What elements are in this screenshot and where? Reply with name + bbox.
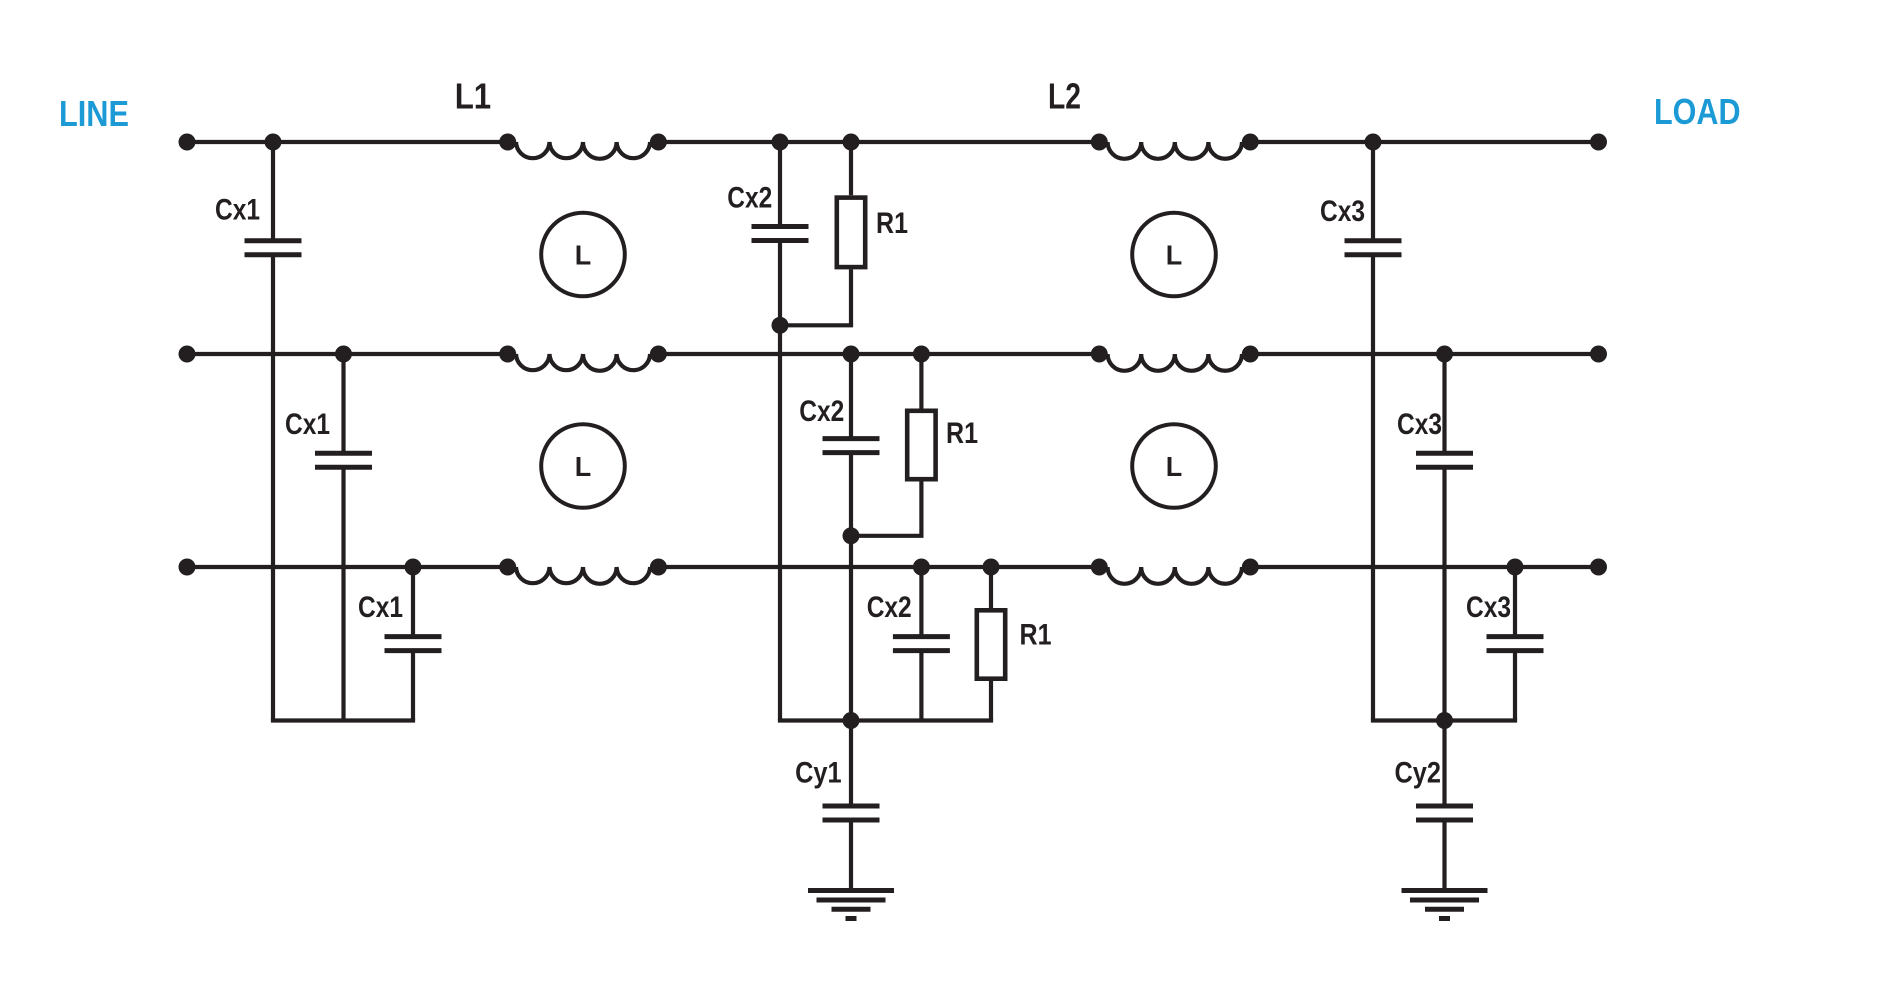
node top rail terminal xyxy=(179,134,196,151)
capacitor Cx1 (middle) wire upper xyxy=(341,354,345,453)
node bottom rail L2 end xyxy=(1242,559,1259,576)
capacitor Cx2 (top) wire lower xyxy=(778,241,782,721)
svg-text:Cy2: Cy2 xyxy=(1395,757,1442,790)
svg-text:Cx2: Cx2 xyxy=(867,591,912,624)
resistor R1 (top) lead upper xyxy=(849,142,853,195)
svg-text:L: L xyxy=(575,240,592,271)
inductor winding L1 (bottom rail) xyxy=(516,567,650,584)
inductor L2 winding (top rail) xyxy=(1108,142,1242,159)
node middle rail L2 end xyxy=(1242,346,1259,363)
svg-text:Cx3: Cx3 xyxy=(1466,591,1511,624)
capacitor Cx3 (middle) wire lower xyxy=(1442,467,1446,720)
capacitor Cy2 wire upper xyxy=(1442,721,1446,807)
resistor R1 (top) lead lower xyxy=(849,269,853,325)
common-mode choke core L (top left) xyxy=(541,213,625,297)
resistor R1 (bottom) body xyxy=(977,610,1005,678)
capacitor Cx2 (bottom) plates xyxy=(893,634,950,639)
capacitor Cx2 (middle) plates xyxy=(823,436,880,441)
wire R1 (top) jog to Cx2 xyxy=(778,323,853,327)
svg-text:Cx3: Cx3 xyxy=(1397,408,1442,441)
node bottom rail R1 tap xyxy=(983,559,1000,576)
capacitor Cx3 (middle) plates xyxy=(1416,451,1473,456)
node Cy1 junction on bus xyxy=(843,712,860,729)
capacitor Cx1 (middle) plates xyxy=(315,451,372,456)
node bottom rail Cx2 tap xyxy=(913,559,930,576)
wire bottom rail segment (center) xyxy=(658,565,1099,569)
node middle rail R1 tap xyxy=(913,346,930,363)
capacitor Cx3 (middle) wire upper xyxy=(1442,354,1446,453)
inductor winding L2 (middle rail) xyxy=(1108,354,1242,371)
svg-text:Cx1: Cx1 xyxy=(215,194,260,227)
node top rail L2 end xyxy=(1242,134,1259,151)
capacitor Cx2 (middle) wire upper xyxy=(849,354,853,439)
capacitor Cx1 (middle) wire lower xyxy=(341,467,345,720)
wire top rail segment (L2 to LOAD) xyxy=(1250,140,1598,144)
resistor R1 (bottom) lead upper xyxy=(989,567,993,608)
node top rail L1 start xyxy=(499,134,516,151)
capacitor Cx3 (top) wire upper xyxy=(1371,142,1375,241)
capacitor Cx1 (bottom) wire lower xyxy=(411,651,415,721)
node middle rail terminal xyxy=(179,346,196,363)
node top rail L2 start xyxy=(1091,134,1108,151)
wire middle rail segment (right) xyxy=(1250,352,1598,356)
capacitor Cx2 (bottom) wire lower xyxy=(919,651,923,721)
common-mode choke core L (top right) xyxy=(1132,213,1216,297)
wire Cx3 star bus xyxy=(1371,718,1517,722)
capacitor Cx2 (top) wire upper xyxy=(778,142,782,227)
common-mode choke core L (bottom left) xyxy=(541,424,625,508)
node bottom rail terminal xyxy=(179,559,196,576)
capacitor Cx3 (top) wire lower xyxy=(1371,255,1375,721)
capacitor Cy2 plates xyxy=(1416,804,1473,809)
wire bottom rail segment (right) xyxy=(1250,565,1598,569)
svg-text:R1: R1 xyxy=(876,207,908,240)
capacitor Cx2 (top) plates xyxy=(752,224,809,229)
node bottom rail L1 end xyxy=(650,559,667,576)
node R1/Cx2 (top) junction xyxy=(772,317,789,334)
wire Cx2/R1 star bus xyxy=(778,718,993,722)
svg-text:L1: L1 xyxy=(455,76,492,117)
ground symbol (Cy2) xyxy=(1402,888,1488,893)
inductor winding L2 (bottom rail) xyxy=(1108,567,1242,584)
node bottom rail L1 start xyxy=(499,559,516,576)
resistor R1 (middle) lead lower xyxy=(919,482,923,536)
node top rail Cx2 tap xyxy=(772,134,789,151)
node top rail R1 tap xyxy=(843,134,860,151)
node Cy2 junction on bus xyxy=(1436,712,1453,729)
capacitor Cy1 wire upper xyxy=(849,721,853,807)
node middle rail L1 end xyxy=(650,346,667,363)
svg-text:R1: R1 xyxy=(1020,619,1052,652)
node bottom rail terminal xyxy=(1590,559,1607,576)
svg-text:Cx2: Cx2 xyxy=(799,395,844,428)
wire R1 (middle) jog to Cx2 xyxy=(849,534,924,538)
svg-text:Cx1: Cx1 xyxy=(358,591,403,624)
capacitor Cy1 plates xyxy=(823,804,880,809)
capacitor Cx3 (top) plates xyxy=(1345,238,1402,243)
node top rail terminal xyxy=(1590,134,1607,151)
node R1/Cx2 (middle) junction xyxy=(843,527,860,544)
node middle rail terminal xyxy=(1590,346,1607,363)
svg-text:Cy1: Cy1 xyxy=(795,757,842,790)
node top rail Cx1 tap xyxy=(265,134,282,151)
capacitor Cx1 (top) wire lower xyxy=(271,255,275,721)
node bottom rail L2 start xyxy=(1091,559,1108,576)
resistor R1 (top) body xyxy=(837,198,865,268)
wire Cx1 star bus xyxy=(271,718,415,722)
wire middle rail segment (center) xyxy=(658,352,1099,356)
svg-text:L: L xyxy=(575,451,592,482)
svg-text:L2: L2 xyxy=(1048,76,1081,117)
node middle rail Cx2 tap xyxy=(843,346,860,363)
capacitor Cy2 wire lower xyxy=(1442,820,1446,888)
capacitor Cx1 (top) plates xyxy=(245,238,302,243)
node top rail L1 end xyxy=(650,134,667,151)
ground symbol (Cy1) xyxy=(808,888,894,893)
wire middle rail segment (left) xyxy=(187,352,508,356)
capacitor Cx3 (bottom) wire upper xyxy=(1513,567,1517,637)
node bottom rail Cx3 tap xyxy=(1507,559,1524,576)
svg-text:LOAD: LOAD xyxy=(1654,91,1741,132)
svg-text:L: L xyxy=(1166,451,1183,482)
svg-text:L: L xyxy=(1166,240,1183,271)
capacitor Cy1 wire lower xyxy=(849,820,853,888)
svg-text:Cx3: Cx3 xyxy=(1320,195,1365,228)
wire bottom rail segment (left) xyxy=(187,565,508,569)
inductor winding L1 (middle rail) xyxy=(516,354,650,371)
capacitor Cx1 (bottom) plates xyxy=(385,634,442,639)
node middle rail Cx3 tap xyxy=(1436,346,1453,363)
inductor L1 winding (top rail) xyxy=(516,142,650,159)
common-mode choke core L (bottom right) xyxy=(1132,424,1216,508)
node bottom rail Cx1 tap xyxy=(405,559,422,576)
wire top rail segment (L1 to Cx2/R1) xyxy=(658,140,1099,144)
svg-text:LINE: LINE xyxy=(59,93,129,134)
node top rail Cx3 tap xyxy=(1365,134,1382,151)
svg-text:Cx1: Cx1 xyxy=(285,408,330,441)
node middle rail L1 start xyxy=(499,346,516,363)
resistor R1 (middle) lead upper xyxy=(919,354,923,409)
node middle rail Cx1 tap xyxy=(335,346,352,363)
capacitor Cx1 (top) wire upper xyxy=(271,142,275,241)
wire top rail L segment (LINE to L1) xyxy=(187,140,508,144)
capacitor Cx2 (bottom) wire upper xyxy=(919,567,923,637)
capacitor Cx3 (bottom) wire lower xyxy=(1513,651,1517,721)
svg-text:R1: R1 xyxy=(946,417,978,450)
node middle rail L2 start xyxy=(1091,346,1108,363)
capacitor Cx3 (bottom) plates xyxy=(1487,634,1544,639)
resistor R1 (middle) body xyxy=(907,411,935,479)
capacitor Cx1 (bottom) wire upper xyxy=(411,567,415,637)
svg-text:Cx2: Cx2 xyxy=(727,182,772,215)
resistor R1 (bottom) lead lower xyxy=(989,681,993,721)
capacitor Cx2 (middle) wire lower xyxy=(849,453,853,721)
